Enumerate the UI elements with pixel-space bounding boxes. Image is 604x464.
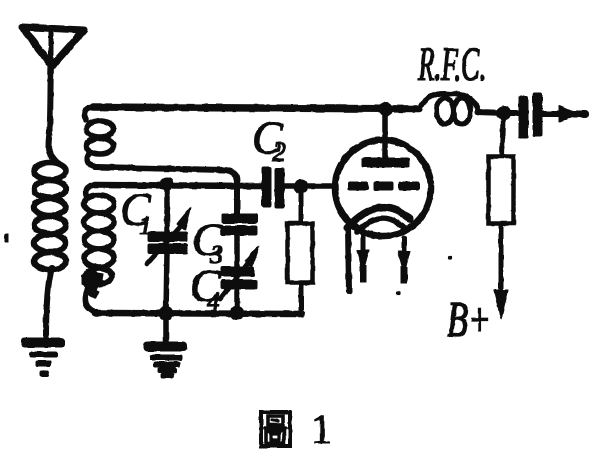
ink blob on coil	[82, 269, 105, 298]
wire C2 to grid	[284, 184, 336, 189]
caption figure 1 character	[261, 412, 290, 446]
tube V1 grid (dashed)	[348, 182, 419, 190]
wire secondary top / grid line to C2	[95, 185, 262, 186]
ground (tuned circuit)	[144, 342, 187, 378]
speck left margin	[5, 234, 8, 242]
wire tickler bottom to C3	[95, 167, 237, 214]
speck near tube	[396, 291, 399, 294]
wire output with arrow	[542, 106, 585, 122]
capacitor C1 (variable)	[147, 184, 191, 313]
capacitor C4 (variable)	[220, 246, 259, 313]
wire rail to ground	[164, 313, 169, 343]
svg-text:R.F.C.: R.F.C.	[417, 38, 486, 91]
vacuum tube V1 envelope	[335, 140, 431, 236]
svg-text:1: 1	[311, 407, 332, 453]
node C4 bottom junction	[231, 307, 244, 320]
tube V1 plate	[362, 158, 409, 167]
inductor L3 tickler coil	[84, 107, 113, 167]
capacitor C2 (grid coupling)	[262, 167, 284, 208]
svg-text:1: 1	[139, 211, 152, 240]
label C2	[252, 112, 286, 168]
capacitor C3 (trimmer)	[221, 214, 257, 267]
wire bottom rail	[95, 313, 302, 314]
resistor R1 grid leak	[288, 190, 312, 314]
filament lead right with arrow	[398, 238, 410, 283]
inductor L1 antenna coil	[34, 163, 66, 270]
resistor R2	[489, 157, 513, 223]
wire RFC to node	[478, 112, 505, 113]
wire top plate rail	[93, 107, 419, 109]
wire L1 to ground	[46, 268, 52, 338]
node output junction	[498, 107, 511, 120]
speck near B+	[448, 256, 451, 259]
svg-text:B+: B+	[447, 291, 491, 347]
svg-text:2: 2	[272, 137, 286, 168]
inductor RFC choke	[419, 94, 478, 124]
capacitor C5 output	[519, 93, 542, 138]
label C4	[190, 260, 222, 316]
wire cathode lead	[348, 228, 349, 291]
wire node to R2	[502, 116, 503, 157]
label C1	[120, 184, 152, 240]
node plate rail junction	[380, 103, 393, 116]
node grid junction	[295, 180, 308, 193]
wire plate lead	[383, 112, 388, 160]
ground (antenna)	[22, 338, 64, 376]
antenna	[22, 27, 84, 66]
wire node to C5	[506, 111, 519, 116]
node C1 bottom / ground junction	[160, 307, 173, 320]
wire antenna lead	[48, 66, 57, 163]
tube V1 filament arcs	[347, 207, 410, 228]
label C3	[192, 214, 224, 269]
wire B+ arrow	[494, 223, 508, 319]
filament lead left with arrow	[357, 234, 369, 282]
inductor L2 secondary coil	[84, 185, 114, 313]
node secondary-C1 junction	[161, 178, 173, 190]
